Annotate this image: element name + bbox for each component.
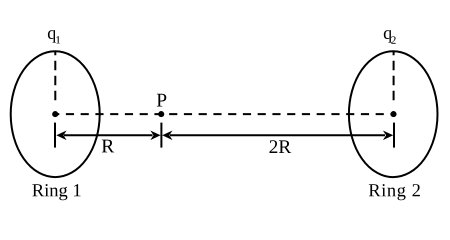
vertical dashed line from q1 down ring 1 axis — [54, 51, 56, 106]
label P — [157, 94, 167, 107]
tick mark at ring 1 center — [54, 123, 56, 148]
dimension arrow 2R between P and ring 2 center — [162, 131, 393, 141]
ring 1 center dot — [52, 111, 58, 117]
ring 2 (right ellipse) — [349, 51, 438, 177]
label q2 — [384, 30, 396, 44]
ring 1 (left ellipse) — [11, 51, 100, 177]
label q1 — [48, 30, 60, 43]
label 2R — [270, 140, 292, 153]
label Ring 1 — [32, 184, 80, 200]
label R — [102, 140, 114, 153]
ring 2 center dot — [390, 111, 396, 117]
point P dot — [158, 111, 164, 117]
tick mark at ring 2 center — [393, 123, 395, 148]
dimension arrow R between ring 1 center and P — [56, 131, 160, 141]
label Ring 2 — [369, 184, 420, 200]
vertical dashed line from q2 down ring 2 axis — [393, 51, 395, 106]
horizontal dashed axis line from ring 1 center through P to ring 2 center — [55, 113, 393, 115]
tick mark at point P — [160, 123, 162, 148]
